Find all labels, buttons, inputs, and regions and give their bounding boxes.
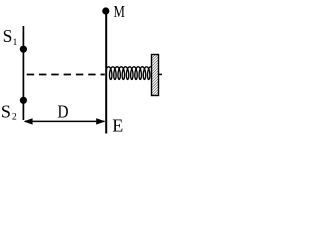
svg-text:1: 1 [13,37,18,48]
wire: stub right of wall [159,73,163,75]
node S2 (source dot) [20,97,27,104]
svg-text:M: M [114,2,126,21]
svg-text:2: 2 [12,112,17,123]
svg-text:D: D [58,102,69,122]
svg-text:E: E [112,115,123,135]
wire: vertical rod M-E [105,10,107,134]
svg-text:S: S [1,102,11,122]
wire: dashed axis line [27,74,105,76]
node S1 (source dot) [20,46,27,53]
svg-text:S: S [3,26,13,46]
node M (pivot dot) [102,7,109,14]
dimension arrow D (double headed) [25,120,105,122]
wall (hatched support) [152,55,159,96]
spring (coil) [106,67,153,80]
wire: left slit line S1-S2 [22,26,24,120]
